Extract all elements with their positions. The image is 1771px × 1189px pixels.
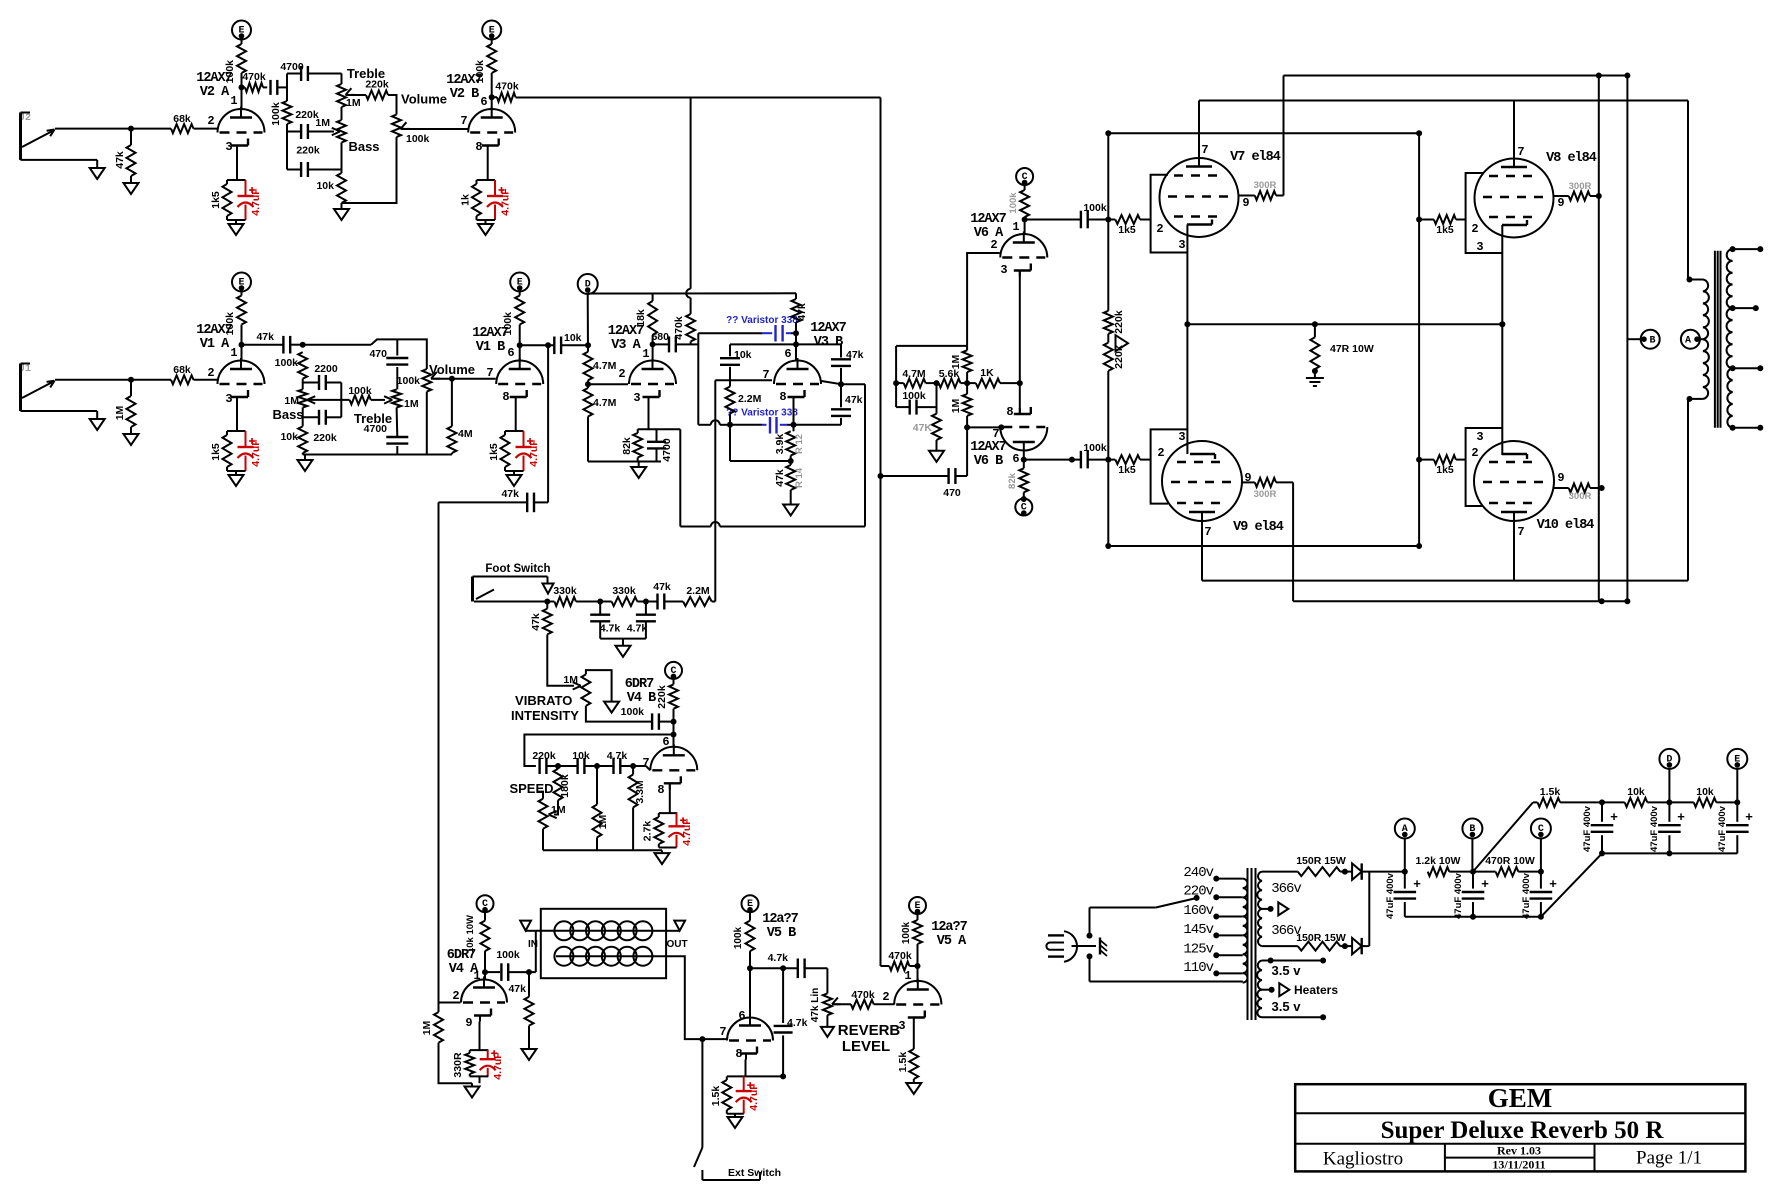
resistor 4.7M PI: [893, 346, 939, 407]
svg-text:1: 1: [230, 94, 237, 108]
capacitor 10k grid box: [720, 349, 752, 387]
capacitor 4.7uF V1B cathode bypass: [505, 431, 540, 471]
resistor 1.5k V5B cathode: [710, 1073, 786, 1113]
wire diagonal gnd1 to gnd2: [1541, 853, 1602, 916]
svg-text:4.7M: 4.7M: [593, 397, 617, 409]
capacitor 10k oscillator: [558, 750, 600, 774]
svg-text:330k: 330k: [553, 585, 577, 597]
capacitor 100k coupling V6B-V9: [1024, 442, 1112, 468]
svg-text:47uF 400v: 47uF 400v: [1649, 805, 1660, 852]
resistor 100k V5A plate: [901, 920, 922, 983]
capacitor 47uF 400v D-in: [1582, 802, 1618, 856]
svg-text:470k: 470k: [495, 81, 519, 93]
svg-text:330k: 330k: [612, 585, 636, 597]
svg-text:12AX7: 12AX7: [446, 73, 482, 88]
triode V1A: [218, 358, 265, 403]
svg-text:2.2M: 2.2M: [738, 393, 762, 405]
svg-text:V9 el84: V9 el84: [1233, 520, 1284, 535]
varistor 338 upper (blue): [698, 315, 798, 342]
svg-text:1M: 1M: [597, 814, 609, 829]
wire V5B plate lead: [747, 951, 753, 1016]
svg-text:2.7k: 2.7k: [642, 821, 654, 842]
supply node B (output stage): [1641, 330, 1660, 349]
svg-text:1: 1: [230, 346, 237, 360]
svg-text:47R 10W: 47R 10W: [1330, 343, 1374, 355]
svg-text:4.7k: 4.7k: [627, 623, 648, 635]
svg-text:47k: 47k: [796, 303, 808, 321]
wire V1A plate lead: [241, 325, 243, 361]
svg-text:47uF 400v: 47uF 400v: [1385, 872, 1396, 919]
svg-text:Super Deluxe Reverb 50 R: Super Deluxe Reverb 50 R: [1381, 1117, 1665, 1144]
svg-text:100k: 100k: [496, 949, 520, 961]
supply node C (V6A): [1016, 168, 1033, 190]
reverb tank input coil: [554, 921, 652, 940]
svg-text:3: 3: [1178, 430, 1185, 444]
capacitor 4.7k reverb mix: [774, 968, 808, 1076]
svg-text:10k: 10k: [564, 332, 582, 344]
supply node E (V1A): [232, 273, 251, 296]
wire V8 plate feed: [1513, 101, 1515, 159]
svg-text:4.7k: 4.7k: [600, 623, 621, 635]
svg-text:4M: 4M: [458, 428, 473, 440]
capacitor 4700 ch1: [364, 408, 409, 455]
wire PSU ground rail 2: [1602, 852, 1737, 854]
svg-text:47k Lin: 47k Lin: [810, 988, 821, 1022]
wire 680 node to varistor leg: [691, 333, 699, 425]
potentiometer 1M speed: [537, 792, 566, 829]
ground vibrato: [655, 850, 670, 864]
capacitor 47k V3B lower right: [831, 384, 863, 425]
capacitor 47uF 400v A: [1385, 872, 1421, 919]
svg-text:10k: 10k: [572, 750, 590, 762]
resistor 1k5 V2A cathode: [210, 180, 246, 220]
svg-text:6: 6: [738, 1009, 745, 1023]
svg-text:4700: 4700: [364, 423, 388, 435]
capacitor 220k oscillator: [532, 750, 561, 774]
capacitor 10k coupling V1B: [517, 332, 591, 354]
jack J2 input: [19, 113, 97, 160]
resistor 18k V3A plate load: [635, 293, 657, 335]
triode V3B: [774, 358, 821, 403]
diode rectifier lower: [1345, 938, 1369, 954]
wire screen bus B riser: [1627, 76, 1641, 602]
svg-text:INTENSITY: INTENSITY: [511, 708, 579, 723]
svg-text:4.7uF: 4.7uF: [748, 1083, 760, 1111]
svg-text:A: A: [1685, 336, 1691, 347]
svg-text:2: 2: [207, 114, 214, 128]
pin 1 V1A: [230, 346, 237, 360]
wire 2.2M to cathode network: [730, 425, 791, 461]
svg-text:68k: 68k: [173, 364, 191, 376]
svg-text:220v: 220v: [1183, 884, 1213, 900]
svg-text:160v: 160v: [1183, 903, 1213, 919]
tube 12a?7 V5B label: [762, 912, 798, 941]
svg-text:1: 1: [473, 969, 480, 983]
svg-text:8: 8: [475, 140, 482, 154]
svg-text:?? Varistor 338: ?? Varistor 338: [726, 408, 798, 419]
reverb tank output coil: [554, 947, 652, 966]
svg-text:2.2M: 2.2M: [686, 585, 710, 597]
pin 9 V8: [1557, 196, 1564, 210]
resistor 10k PSU first: [1602, 786, 1672, 807]
svg-text:Volume: Volume: [401, 92, 447, 107]
svg-text:10k: 10k: [316, 180, 334, 192]
svg-text:3: 3: [898, 1019, 905, 1033]
wire 4.7M to cathode rail: [587, 417, 589, 462]
svg-text:V3 B: V3 B: [814, 335, 843, 350]
resistor 220k divider upper: [1104, 310, 1125, 334]
resistor 470k dry mix: [881, 950, 921, 971]
ground tank right: [674, 921, 685, 931]
resistor 3.9k V3B cathode: [774, 431, 805, 465]
svg-text:82k: 82k: [1007, 472, 1018, 489]
primary tap 160v: [1183, 903, 1242, 920]
svg-text:10k: 10k: [280, 431, 298, 443]
svg-text:V4 B: V4 B: [627, 691, 656, 706]
wire V7 screen riser: [1284, 73, 1631, 196]
svg-text:12AX7: 12AX7: [970, 212, 1006, 227]
svg-text:12AX7: 12AX7: [810, 321, 846, 336]
ground V2B cathode: [478, 220, 493, 235]
svg-text:100k: 100k: [348, 385, 372, 397]
svg-text:220k: 220k: [365, 79, 389, 91]
svg-text:1M: 1M: [315, 117, 330, 129]
transformer heater winding 3.5v upper: [1257, 958, 1326, 990]
resistor 1k5 V1A cathode: [210, 431, 246, 471]
svg-text:150R 15W: 150R 15W: [1296, 855, 1346, 867]
pin 7 V2B: [460, 114, 467, 128]
triode V4A: [461, 977, 507, 1022]
wire V3A grid: [585, 381, 628, 387]
primary tap 240v: [1183, 865, 1242, 882]
reverb tank box: [541, 909, 666, 978]
resistor 10k tone ch2: [316, 143, 346, 204]
svg-text:3.3M: 3.3M: [634, 780, 646, 804]
transformer secondary 366v upper: [1257, 872, 1301, 909]
resistor 100k tone ch2: [270, 101, 292, 126]
supply node C (V6B): [1015, 492, 1032, 516]
svg-text:R 12: R 12: [794, 434, 805, 454]
transformer OT core: [1715, 251, 1721, 428]
svg-text:12AX7: 12AX7: [196, 71, 232, 86]
wire V6B plate lead: [1021, 453, 1027, 463]
ground tank input: [520, 921, 536, 931]
wire V4B plate lead: [671, 709, 677, 747]
svg-text:100k: 100k: [275, 357, 299, 369]
resistor 470k V2B output: [489, 81, 519, 102]
resistor 1k5 V7 grid stopper: [1108, 215, 1150, 236]
wire V3A cathode bar: [638, 428, 681, 430]
wire V4A grid bus: [439, 502, 461, 1012]
tube 12AX7 V2B label: [446, 73, 482, 102]
node D supply: [1659, 749, 1679, 803]
wire J1 to grid: [55, 377, 171, 383]
svg-text:GEM: GEM: [1488, 1083, 1553, 1113]
svg-text:3.5 v: 3.5 v: [1272, 999, 1302, 1014]
resistor 220k V4B plate load: [656, 684, 678, 708]
jack J1 input: [19, 364, 97, 412]
svg-text:IN: IN: [528, 939, 538, 950]
OT secondary tap 3: [1730, 365, 1764, 371]
svg-text:1M: 1M: [346, 97, 361, 109]
capacitor 4.7k phase 1: [590, 602, 620, 639]
pin 9 V7: [1242, 196, 1249, 210]
svg-text:300R: 300R: [1569, 491, 1592, 502]
svg-text:12a?7: 12a?7: [762, 912, 798, 927]
OT secondary tap 2: [1730, 305, 1759, 311]
svg-text:1.5k: 1.5k: [897, 1052, 909, 1073]
ground V3B cathode: [783, 490, 798, 516]
svg-text:3: 3: [225, 392, 232, 406]
wire screen bus left: [1598, 76, 1600, 602]
capacitor 4.7k V5B out: [750, 952, 827, 978]
svg-text:12AX7: 12AX7: [608, 324, 644, 339]
svg-text:V5 B: V5 B: [767, 926, 796, 941]
wire V6A grid: [967, 253, 1000, 346]
svg-text:3.5 v: 3.5 v: [1272, 963, 1302, 978]
triode V5A: [894, 979, 941, 1024]
capacitor 100k coupling V6A-V7: [1025, 202, 1112, 228]
title Rev 1.03: [1497, 1144, 1541, 1158]
pin 7 V8: [1517, 145, 1524, 159]
svg-text:Bass: Bass: [272, 407, 303, 422]
potentiometer Volume 100k ch2: [392, 92, 468, 146]
potentiometer Treble 1M ch2: [337, 66, 385, 109]
svg-text:125v: 125v: [1183, 942, 1213, 958]
svg-text:470k: 470k: [242, 71, 266, 83]
ground jack J1: [90, 411, 105, 430]
svg-text:470R 10W: 470R 10W: [1485, 855, 1535, 867]
wire V1A cathode: [236, 403, 238, 431]
heaters center tap: [1262, 983, 1338, 997]
ground jack J2: [90, 160, 105, 179]
svg-text:4.7k: 4.7k: [768, 952, 789, 964]
supply node A (OT center tap): [1681, 330, 1703, 349]
pin 7 V10: [1517, 525, 1524, 539]
capacitor 2200 ch1: [303, 363, 342, 390]
tube 12AX7 V1A label: [196, 323, 232, 352]
wire D rail: [588, 292, 796, 294]
svg-text:47k: 47k: [774, 469, 786, 487]
resistor 1k5 V10 grid: [1416, 455, 1466, 476]
title block frame: [1295, 1084, 1745, 1171]
ground tone1: [298, 455, 313, 472]
svg-text:680: 680: [651, 331, 669, 343]
resistor 1k5 V9 grid stopper: [1108, 455, 1150, 476]
transformer core: [1248, 868, 1256, 1020]
svg-text:2: 2: [1471, 446, 1478, 460]
resistor 100k V1A plate load: [224, 296, 246, 336]
title date: [1492, 1158, 1545, 1172]
svg-text:180k: 180k: [559, 774, 571, 798]
resistor 150R 15W upper: [1296, 855, 1348, 876]
svg-text:6DR7: 6DR7: [447, 948, 476, 963]
wire V3B grid riser: [715, 380, 772, 601]
svg-text:7: 7: [486, 366, 493, 380]
tube 12AX7 V3A label: [608, 324, 644, 353]
wire V3B grid tap: [822, 381, 866, 527]
pin 6 V2B: [480, 95, 487, 109]
svg-text:6: 6: [1012, 452, 1019, 466]
svg-text:1.5k: 1.5k: [710, 1086, 722, 1107]
resistor 1k5 V1B cathode: [488, 431, 524, 471]
resistor 47k reverb: [508, 972, 533, 1026]
svg-text:2: 2: [1157, 446, 1164, 460]
svg-text:Kagliostro: Kagliostro: [1323, 1149, 1403, 1170]
grid box V7: [1151, 175, 1188, 253]
supply node D: [578, 274, 598, 294]
resistor 2.7k V4B cathode: [642, 784, 678, 848]
wire PI mixer top rail: [896, 345, 967, 347]
svg-text:4.7uF: 4.7uF: [250, 188, 262, 216]
svg-text:4.7k: 4.7k: [787, 1017, 808, 1029]
capacitor 47k coupling ch1: [239, 331, 303, 354]
resistor 100k V2B plate load: [474, 44, 496, 83]
svg-text:+: +: [1413, 876, 1421, 891]
pin 1 V4A: [473, 969, 480, 983]
svg-text:V5 A: V5 A: [937, 934, 967, 949]
capacitor 4.7uF V2A cathode bypass: [227, 180, 262, 220]
pentode V7 EL84: [1160, 150, 1281, 237]
svg-text:V7 el84: V7 el84: [1230, 150, 1281, 165]
capacitor 47uF 400v B: [1453, 872, 1489, 920]
triode V3A: [629, 358, 676, 403]
text VIBRATO INTENSITY: [511, 693, 579, 723]
node C supply: [1531, 819, 1551, 872]
svg-text:12AX7: 12AX7: [196, 323, 232, 338]
svg-text:REVERB: REVERB: [838, 1022, 901, 1039]
wire V10 plate feed: [1513, 521, 1515, 581]
chassis ground mains: [1100, 938, 1107, 957]
wire V5A cathode: [913, 1024, 915, 1050]
svg-text:8: 8: [502, 390, 509, 404]
svg-text:R 14: R 14: [794, 467, 805, 488]
capacitor coupling V2A: [271, 80, 288, 95]
wire tank input coil end: [651, 930, 680, 932]
title Super Deluxe Reverb 50 R: [1295, 1117, 1745, 1144]
svg-text:6DR7: 6DR7: [625, 677, 654, 692]
pin 1 V2A: [230, 94, 237, 108]
tube 12a?7 V5A label: [931, 920, 967, 949]
svg-text:1: 1: [904, 969, 911, 983]
jack Foot Switch: [473, 563, 551, 602]
resistor 47k vibrato depth: [530, 602, 552, 635]
svg-text:470k: 470k: [888, 950, 912, 962]
tube 6DR7 V4A label: [447, 948, 479, 977]
svg-text:330R: 330R: [452, 1052, 464, 1078]
svg-text:3: 3: [633, 391, 640, 405]
wire tank output: [651, 956, 727, 1042]
svg-text:V8 el84: V8 el84: [1546, 151, 1597, 166]
svg-text:1M: 1M: [563, 674, 578, 686]
svg-text:6: 6: [784, 347, 791, 361]
capacitor 4700 V3A cathode: [647, 429, 673, 461]
svg-text:110v: 110v: [1183, 960, 1213, 976]
svg-text:SPEED: SPEED: [509, 781, 553, 796]
resistor 1k V2B cathode: [460, 180, 496, 220]
primary tap 145v: [1183, 922, 1242, 939]
resistor 100k V5B plate: [733, 921, 755, 952]
pin 2 V1A: [207, 366, 214, 380]
svg-text:+: +: [1610, 809, 1618, 824]
pin 3 V3A: [633, 391, 640, 405]
supply node C (V4B): [665, 662, 682, 685]
svg-text:7: 7: [460, 114, 467, 128]
ground tone stack ch2: [334, 203, 349, 220]
potentiometer 47k Lin reverb level: [810, 988, 851, 1022]
pin 3 V8: [1476, 240, 1483, 254]
svg-text:5.6k: 5.6k: [939, 368, 960, 380]
pin 9 V9: [1244, 471, 1251, 485]
svg-text:3: 3: [1178, 238, 1185, 252]
svg-text:V6 A: V6 A: [974, 226, 1004, 241]
svg-text:V2 B: V2 B: [450, 87, 479, 102]
ground phase caps: [600, 639, 646, 657]
svg-text:V1 A: V1 A: [200, 337, 230, 352]
OT secondary tap 4: [1730, 425, 1764, 431]
svg-text:9: 9: [1557, 471, 1564, 485]
resistor 470R 10W: [1473, 855, 1544, 876]
wire diagonal B to 1.5k: [1473, 802, 1533, 871]
pentode V10 EL84: [1474, 441, 1594, 533]
wire V7 plate to OT: [1199, 101, 1688, 280]
wire foot switch row: [474, 599, 554, 605]
title GEM: [1295, 1083, 1745, 1113]
svg-text:100k: 100k: [733, 926, 744, 949]
resistor 47k input load ch2: [114, 129, 136, 176]
svg-text:1M: 1M: [950, 398, 962, 413]
capacitor 4700 treble ch2: [280, 61, 341, 84]
tube 6DR7 V4B label: [625, 677, 656, 706]
wire oscillator loop top: [524, 735, 673, 767]
text OUT: [666, 939, 687, 950]
pin 6 V5B: [738, 1009, 745, 1023]
wire OT primary top lead: [1687, 277, 1703, 283]
svg-text:145v: 145v: [1183, 922, 1213, 938]
svg-text:10k: 10k: [1627, 786, 1645, 798]
wire 47k to intensity pot: [547, 634, 581, 689]
pentode V8 EL84: [1475, 151, 1597, 238]
tube 12AX7 V1B label: [472, 326, 508, 355]
svg-text:1.2k 10W: 1.2k 10W: [1416, 855, 1461, 867]
resistor 300R V8 screen: [1554, 181, 1602, 201]
svg-text:6: 6: [662, 735, 669, 749]
wire V7 cathode to rail: [1184, 225, 1190, 328]
wire V1B plate lead: [519, 325, 521, 361]
svg-text:7: 7: [719, 1025, 726, 1039]
supply node E (V5B): [742, 895, 759, 920]
pin 2 V2A: [207, 114, 214, 128]
resistor 1.5k PSU: [1533, 786, 1605, 807]
svg-text:Bass: Bass: [348, 139, 379, 154]
svg-text:300R: 300R: [1254, 180, 1277, 191]
svg-text:47uF 400v: 47uF 400v: [1453, 872, 1464, 919]
ground V5B cathode: [728, 1114, 743, 1128]
potentiometer Volume 100k ch1: [397, 362, 496, 392]
wire V6 cathode link: [1017, 271, 1023, 415]
wire V3B box top: [730, 344, 841, 356]
tube 12AX7 V6A label: [970, 212, 1006, 241]
resistor 1M input load ch1: [114, 380, 136, 427]
wire intensity top to ground: [586, 670, 619, 713]
triode V6A: [1000, 232, 1047, 277]
pin 2 V3A: [618, 367, 625, 381]
pin 8 V2B: [475, 140, 482, 154]
wire PSU ground rail 1: [1405, 916, 1541, 918]
resistor 1.2k 10W: [1416, 855, 1476, 876]
svg-text:300R: 300R: [1254, 489, 1277, 500]
pentode V9 EL84: [1162, 441, 1284, 535]
